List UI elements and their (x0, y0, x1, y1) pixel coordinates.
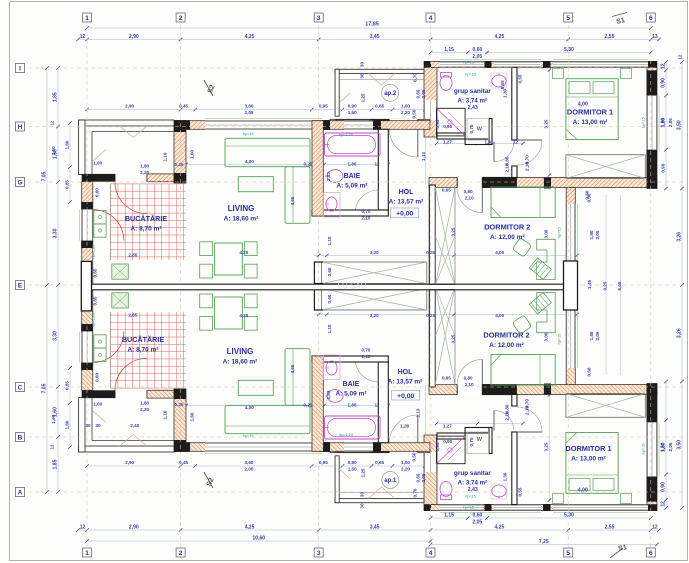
svg-text:0,60: 0,60 (95, 372, 100, 381)
svg-text:2,90: 2,90 (125, 104, 134, 109)
svg-text:30: 30 (360, 62, 365, 68)
svg-text:3,20: 3,20 (370, 313, 379, 318)
svg-text:0,55: 0,55 (500, 80, 505, 89)
svg-text:0,65: 0,65 (93, 296, 98, 305)
svg-text:10,60: 10,60 (253, 536, 266, 542)
svg-text:H: H (18, 124, 23, 131)
svg-text:1,80: 1,80 (661, 442, 666, 451)
svg-text:0,65: 0,65 (93, 268, 98, 277)
svg-text:2,90: 2,90 (129, 34, 139, 40)
svg-text:3,26: 3,26 (677, 328, 683, 338)
porch pier (82, 174, 115, 182)
svg-text:BAIE: BAIE (344, 173, 361, 180)
svg-text:1,00: 1,00 (401, 460, 410, 465)
svg-text:0,25: 0,25 (304, 162, 313, 167)
svg-text:HOL: HOL (399, 189, 415, 196)
wall bit (147, 174, 174, 182)
svg-text:4,25: 4,25 (239, 250, 248, 255)
svg-text:0,90: 0,90 (348, 104, 357, 109)
svg-text:0,65: 0,65 (442, 188, 451, 193)
kitchen door from porch (114, 174, 116, 182)
svg-text:1,60: 1,60 (51, 146, 56, 155)
coffee table (238, 177, 273, 192)
svg-text:3,60: 3,60 (245, 460, 254, 465)
svg-text:7,05: 7,05 (42, 171, 48, 181)
svg-text:1,60: 1,60 (51, 414, 56, 423)
svg-text:4,65: 4,65 (290, 364, 295, 373)
svg-text:1,80: 1,80 (348, 162, 357, 167)
washbasin grup (491, 73, 507, 88)
grup sanitar bottom wall (437, 133, 465, 139)
pedestal sink baie (326, 197, 337, 211)
svg-text:1,80: 1,80 (589, 331, 594, 340)
svg-text:0,90: 0,90 (661, 78, 667, 88)
svg-text:A: 12,00 m²: A: 12,00 m² (489, 342, 525, 349)
svg-text:DORMITOR 1: DORMITOR 1 (565, 444, 611, 453)
svg-text:6: 6 (649, 15, 653, 22)
nightstand right (621, 69, 632, 79)
svg-text:30: 30 (360, 503, 365, 509)
right dimension chains (665, 62, 667, 189)
svg-text:2: 2 (179, 550, 183, 557)
chimney left hollow pier (81, 261, 91, 311)
pier left (174, 120, 190, 130)
wall dormitor separation (429, 178, 657, 188)
svg-text:A: 5,09 m²: A: 5,09 m² (335, 391, 367, 398)
door dormitor1 (517, 139, 542, 141)
dormitor2 right wall (566, 188, 575, 286)
bottom dimension chains (431, 517, 651, 519)
interior chain y466 bottom (85, 464, 89, 468)
svg-text:0,70: 0,70 (469, 437, 474, 446)
svg-text:17,85: 17,85 (365, 22, 379, 28)
svg-text:2,10: 2,10 (504, 411, 509, 420)
svg-text:3,30: 3,30 (53, 331, 59, 341)
svg-text:1,80: 1,80 (140, 401, 149, 406)
top dimension chains (87, 27, 651, 29)
baie bottom wall (312, 210, 388, 216)
baie door (356, 210, 379, 217)
grid bubbles letters left (16, 64, 25, 73)
svg-text:1,10: 1,10 (163, 152, 168, 161)
svg-text:4,25: 4,25 (245, 525, 255, 531)
svg-text:5,30: 5,30 (564, 47, 574, 53)
svg-text:3,25: 3,25 (451, 334, 456, 343)
svg-text:2,05: 2,05 (595, 230, 600, 239)
svg-text:C: C (18, 384, 23, 391)
svg-text:A: 12,00 m²: A: 12,00 m² (490, 234, 526, 241)
living window 3.60 (205, 121, 322, 130)
svg-text:1,85: 1,85 (53, 459, 59, 469)
E-row chain lines (314, 255, 577, 257)
svg-text:BUCĂTĂRIE: BUCĂTĂRIE (122, 335, 165, 344)
svg-text:12: 12 (661, 501, 667, 507)
svg-text:0,70: 0,70 (469, 124, 474, 133)
grup sanitar left pillar wall (424, 68, 437, 138)
svg-text:0,90: 0,90 (661, 163, 666, 172)
svg-text:0,95: 0,95 (435, 119, 440, 128)
svg-text:LIVING: LIVING (227, 347, 254, 356)
svg-text:0,95: 0,95 (319, 460, 328, 465)
svg-text:5: 5 (566, 550, 570, 557)
svg-text:12: 12 (677, 54, 682, 59)
svg-text:0,60: 0,60 (416, 89, 421, 98)
svg-text:12: 12 (80, 525, 86, 531)
svg-text:2,05: 2,05 (472, 520, 482, 526)
svg-text:0,60: 0,60 (585, 190, 590, 199)
grup chain (437, 143, 524, 145)
svg-text:4: 4 (429, 550, 433, 557)
svg-text:0,55: 0,55 (517, 487, 522, 496)
svg-text:0,90: 0,90 (348, 460, 357, 465)
porch roof chevron (120, 126, 134, 138)
niche wall v (489, 119, 492, 145)
svg-text:ap.1: ap.1 (384, 478, 397, 484)
svg-text:30: 30 (95, 423, 101, 428)
svg-text:4: 4 (429, 15, 433, 22)
window pier (647, 150, 658, 179)
svg-text:1: 1 (85, 550, 89, 557)
wall stub (512, 166, 517, 178)
svg-text:12: 12 (374, 162, 380, 167)
svg-text:2,10: 2,10 (504, 163, 509, 172)
svg-text:grup sanitar: grup sanitar (454, 470, 491, 477)
svg-text:1,10: 1,10 (327, 236, 332, 245)
white wall section under ap2 porch (335, 120, 369, 128)
pier (543, 61, 551, 68)
window sill lines (553, 59, 648, 61)
svg-text:3,25: 3,25 (451, 227, 456, 236)
svg-text:2,10: 2,10 (525, 162, 530, 171)
kitchen sink unit (94, 211, 106, 224)
svg-text:2,43: 2,43 (468, 487, 478, 493)
svg-text:2,20: 2,20 (140, 407, 149, 412)
svg-text:A: 5,09 m²: A: 5,09 m² (336, 183, 368, 190)
svg-text:3,50: 3,50 (677, 440, 683, 450)
svg-text:A: A (18, 489, 23, 496)
baie right wall (378, 129, 388, 210)
bed dormitor2 (491, 187, 555, 218)
svg-text:2,90: 2,90 (125, 460, 134, 465)
svg-text:30: 30 (85, 423, 91, 428)
pier (544, 178, 551, 189)
svg-text:2,20: 2,20 (401, 110, 410, 115)
svg-text:HOL: HOL (398, 369, 414, 376)
svg-text:2,85: 2,85 (128, 253, 137, 258)
entry pier (369, 119, 389, 128)
svg-text:12: 12 (513, 139, 519, 144)
svg-text:A: 8,70 m²: A: 8,70 m² (127, 347, 159, 354)
cap bottom (174, 173, 186, 183)
door leaf dormitor2 (481, 188, 483, 213)
grid bubbles numbers top (83, 13, 92, 22)
svg-text:A: 18,60 m²: A: 18,60 m² (223, 359, 259, 366)
door grup sanitar (493, 142, 495, 162)
kitchen floor tiles (111, 184, 186, 260)
stair left wall (429, 185, 435, 285)
svg-text:0,60: 0,60 (95, 188, 100, 197)
svg-text:hp=1,20: hp=1,20 (339, 133, 353, 137)
svg-text:1,27: 1,27 (443, 424, 452, 429)
svg-text:0,85: 0,85 (65, 180, 70, 189)
svg-text:+0,00: +0,00 (396, 210, 413, 217)
svg-text:12: 12 (80, 34, 86, 40)
sofa horizontal (225, 138, 310, 166)
svg-text:5: 5 (566, 15, 570, 22)
axis grid dashed lines (86, 25, 88, 547)
svg-text:2,83: 2,83 (326, 172, 331, 181)
svg-text:12: 12 (49, 444, 54, 449)
svg-text:A: 13,00 m²: A: 13,00 m² (573, 119, 609, 126)
svg-text:1,27: 1,27 (443, 139, 452, 144)
svg-text:3,00: 3,00 (544, 229, 549, 238)
svg-text:0,85: 0,85 (65, 381, 70, 390)
section marker S2 bottom (204, 472, 213, 488)
svg-text:0,45: 0,45 (179, 460, 188, 465)
dining chair (200, 264, 213, 278)
svg-text:0,60: 0,60 (586, 367, 591, 376)
svg-text:A: 3,74 m²: A: 3,74 m² (458, 480, 488, 487)
svg-text:hp=15: hp=15 (243, 132, 254, 136)
kitchen door swing arc red (115, 182, 147, 214)
entry door leaf (417, 128, 419, 157)
window dormitor1 right (647, 96, 657, 150)
svg-text:0,60: 0,60 (327, 294, 332, 303)
svg-text:4,00: 4,00 (495, 250, 504, 255)
chimney right hollow pier (564, 261, 578, 310)
svg-text:4,25: 4,25 (495, 34, 505, 40)
svg-text:30: 30 (360, 492, 365, 498)
svg-text:2,10: 2,10 (362, 354, 371, 359)
door opening dormitor2 (457, 177, 482, 188)
svg-text:hp=15: hp=15 (558, 227, 562, 238)
svg-text:1,50: 1,50 (348, 110, 357, 115)
svg-text:DORMITOR 2: DORMITOR 2 (483, 331, 529, 340)
pier (373, 120, 381, 130)
svg-text:0,70: 0,70 (362, 209, 371, 214)
svg-text:0,60: 0,60 (327, 267, 332, 276)
pier (485, 61, 492, 68)
svg-text:1,10: 1,10 (163, 410, 168, 419)
svg-text:1,85: 1,85 (53, 92, 59, 102)
svg-text:hp=15: hp=15 (465, 495, 476, 499)
wall hol-dormitor1 (512, 68, 517, 141)
shower cabin (437, 108, 466, 136)
svg-text:2,05: 2,05 (245, 467, 254, 472)
svg-text:2,10: 2,10 (465, 195, 474, 200)
svg-text:3,00: 3,00 (544, 332, 549, 341)
exterior top wall (424, 62, 657, 68)
pier near door (482, 177, 517, 188)
svg-text:hp=15: hp=15 (642, 444, 646, 455)
kitchen window (82, 209, 93, 240)
svg-text:3,20: 3,20 (370, 250, 379, 255)
svg-text:hp=15: hp=15 (465, 73, 476, 77)
party wall (82, 284, 577, 290)
svg-text:4,25: 4,25 (239, 313, 248, 318)
section marker S1 bottom right (610, 548, 623, 558)
left dimension chains (46, 68, 48, 492)
svg-text:0,25: 0,25 (426, 313, 435, 318)
svg-text:0,25: 0,25 (175, 162, 184, 167)
svg-text:1,80: 1,80 (589, 230, 594, 239)
kitchen stove (94, 224, 106, 237)
baie window (344, 121, 373, 130)
svg-text:12: 12 (652, 525, 658, 531)
svg-text:1,13: 1,13 (421, 152, 426, 161)
level box +0,00 top (391, 208, 419, 218)
shower zone baie (324, 193, 341, 218)
svg-text:0,80: 0,80 (464, 189, 473, 194)
svg-text:0,70: 0,70 (362, 348, 371, 353)
svg-text:1,60: 1,60 (190, 412, 195, 421)
svg-text:0,50: 0,50 (412, 452, 417, 461)
left inner chain x70 (69, 123, 71, 202)
chair dormitor2 (512, 238, 531, 257)
svg-text:4,00: 4,00 (578, 102, 588, 108)
porch inner line (92, 131, 174, 133)
porch top-left parapet outer (79, 120, 174, 126)
svg-text:2,83: 2,83 (326, 390, 331, 399)
svg-text:0,60: 0,60 (473, 47, 483, 53)
svg-text:A: 8,70 m²: A: 8,70 m² (130, 226, 162, 233)
dining table (215, 243, 243, 275)
svg-text:0,65: 0,65 (375, 460, 384, 465)
svg-text:0,50: 0,50 (412, 109, 417, 118)
svg-text:2,20: 2,20 (401, 467, 410, 472)
svg-text:2,55: 2,55 (605, 525, 615, 531)
svg-text:2,05: 2,05 (595, 331, 600, 340)
svg-text:1,15: 1,15 (444, 47, 454, 53)
svg-text:4,25: 4,25 (245, 34, 255, 40)
svg-text:2,05: 2,05 (668, 118, 673, 127)
svg-text:G: G (17, 179, 22, 186)
svg-text:1,25: 1,25 (361, 468, 366, 477)
level box +0,00 bottom (392, 391, 420, 401)
svg-text:1,00: 1,00 (93, 161, 102, 166)
svg-text:hp=15: hp=15 (642, 117, 646, 128)
svg-text:4,00: 4,00 (245, 405, 254, 410)
baie top wall (312, 121, 430, 130)
svg-text:1,00: 1,00 (401, 104, 410, 109)
crossed floor box (322, 262, 427, 284)
svg-text:1: 1 (85, 15, 89, 22)
svg-text:ap.2: ap.2 (384, 91, 397, 97)
svg-text:30: 30 (360, 73, 365, 79)
svg-text:1,15: 1,15 (444, 513, 454, 519)
svg-text:1,28: 1,28 (400, 424, 409, 429)
svg-text:5,30: 5,30 (564, 513, 574, 519)
svg-text:0,95: 0,95 (435, 442, 440, 451)
svg-text:1,25: 1,25 (361, 93, 366, 102)
dining chair (200, 242, 213, 256)
D1 interior dim line (549, 70, 551, 175)
svg-text:1,00: 1,00 (93, 402, 102, 407)
svg-text:3,50: 3,50 (677, 120, 683, 130)
channel at box left end (314, 262, 323, 284)
svg-text:3: 3 (317, 550, 321, 557)
pier (322, 120, 330, 130)
svg-text:0,80: 0,80 (464, 376, 473, 381)
svg-text:hp=1,20: hp=1,20 (92, 245, 96, 259)
ap2 porch chevron (368, 73, 382, 85)
svg-text:3: 3 (317, 15, 321, 22)
svg-text:W: W (477, 127, 483, 133)
interior chain y109.5 top (85, 108, 89, 112)
pier (81, 241, 93, 248)
svg-text:3,45: 3,45 (370, 525, 380, 531)
laptop hatch (529, 258, 551, 280)
svg-text:1,50: 1,50 (348, 467, 357, 472)
svg-text:A: 13,57 m²: A: 13,57 m² (389, 199, 425, 206)
svg-text:2,05: 2,05 (245, 110, 254, 115)
svg-text:0,90: 0,90 (443, 439, 452, 444)
svg-text:0,45: 0,45 (179, 104, 188, 109)
window dormitor2 (566, 204, 575, 262)
svg-text:A: 18,60 m²: A: 18,60 m² (224, 216, 260, 223)
svg-text:1,80: 1,80 (661, 118, 666, 127)
porch ap2 parapet (335, 69, 424, 73)
window pier (647, 70, 658, 95)
svg-text:0,60: 0,60 (473, 513, 483, 519)
sill living (205, 118, 322, 120)
svg-text:13: 13 (652, 34, 658, 40)
svg-text:hp=15: hp=15 (463, 506, 474, 510)
svg-text:0,55: 0,55 (517, 74, 522, 83)
svg-text:12: 12 (374, 403, 380, 408)
svg-text:+0,00: +0,00 (397, 393, 414, 400)
svg-text:2,10: 2,10 (465, 382, 474, 387)
svg-text:LU.SAU: LU.SAU (338, 282, 367, 291)
pier at wall start (424, 61, 431, 68)
svg-text:hp=15: hp=15 (558, 334, 562, 345)
svg-text:2,43: 2,43 (468, 105, 478, 111)
svg-text:0,95: 0,95 (319, 104, 328, 109)
cap top (174, 120, 186, 132)
svg-text:LIVING: LIVING (228, 204, 255, 213)
sill kitchen (79, 209, 81, 240)
svg-text:2,90: 2,90 (129, 525, 139, 531)
svg-text:1,41: 1,41 (485, 139, 494, 144)
svg-text:6: 6 (649, 550, 653, 557)
svg-text:12: 12 (661, 63, 667, 69)
svg-text:BUCĂTĂRIE: BUCĂTĂRIE (125, 214, 168, 223)
svg-text:BAIE: BAIE (343, 381, 360, 388)
svg-text:4,00: 4,00 (495, 313, 504, 318)
svg-text:3,45: 3,45 (370, 34, 380, 40)
corridor dim line (425, 130, 427, 185)
svg-text:2,05: 2,05 (421, 89, 426, 98)
svg-text:4,65: 4,65 (290, 196, 295, 205)
svg-text:1,80: 1,80 (348, 403, 357, 408)
svg-text:4,00: 4,00 (578, 488, 588, 494)
svg-text:0,90: 0,90 (661, 482, 667, 492)
section marker S1 top right (612, 13, 627, 17)
svg-text:0,25: 0,25 (603, 281, 608, 290)
svg-text:0,60: 0,60 (416, 473, 421, 482)
niche wall (465, 139, 492, 145)
svg-text:2,10: 2,10 (525, 406, 530, 415)
bathtub (325, 133, 381, 156)
window grup sanitar top (440, 62, 484, 68)
svg-text:I: I (19, 65, 21, 72)
svg-text:7,25: 7,25 (539, 539, 549, 545)
svg-text:W: W (477, 437, 483, 443)
hol top wall / porch wall (330, 119, 430, 128)
svg-text:grup sanitar: grup sanitar (454, 88, 491, 95)
svg-text:1,60: 1,60 (190, 150, 195, 159)
svg-text:0,25: 0,25 (304, 403, 313, 408)
